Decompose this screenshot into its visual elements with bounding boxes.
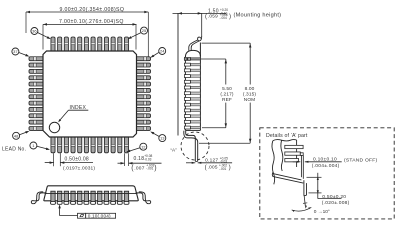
svg-text:5.50: 5.50 — [222, 86, 232, 92]
svg-text:24: 24 — [160, 49, 165, 54]
svg-text:(.0197±.0031): (.0197±.0031) — [63, 165, 95, 171]
svg-text:0.50±0.20: 0.50±0.20 — [322, 194, 346, 200]
svg-text:-.004: -.004 — [220, 16, 227, 20]
svg-text:LEAD No.: LEAD No. — [2, 147, 26, 153]
svg-text:8.00: 8.00 — [245, 86, 255, 92]
svg-text:.005: .005 — [208, 165, 218, 170]
svg-text:9.00±0.20(.354±.008)SQ: 9.00±0.20(.354±.008)SQ — [60, 7, 125, 13]
svg-text:-.001: -.001 — [146, 167, 153, 171]
svg-text:0 →10°: 0 →10° — [314, 209, 330, 215]
svg-text:REF: REF — [222, 97, 232, 103]
svg-text:.007: .007 — [134, 165, 144, 171]
svg-text:): ) — [229, 13, 231, 20]
svg-text:(.217): (.217) — [220, 92, 233, 98]
svg-text:0.50±0.08: 0.50±0.08 — [65, 157, 89, 163]
svg-text:(.020±.008): (.020±.008) — [322, 200, 350, 206]
svg-text:“A”: “A” — [171, 148, 178, 153]
svg-text:(Mounting height): (Mounting height) — [234, 12, 282, 18]
svg-text:.059: .059 — [208, 14, 218, 19]
svg-text:37: 37 — [13, 49, 18, 54]
svg-text:13: 13 — [160, 136, 165, 141]
svg-text:36: 36 — [32, 29, 37, 34]
svg-text:0.127: 0.127 — [205, 157, 218, 163]
svg-text:Details of ‘A’ part: Details of ‘A’ part — [266, 133, 308, 139]
svg-text:(.004±.004): (.004±.004) — [312, 163, 340, 169]
svg-text:25: 25 — [142, 28, 147, 33]
svg-text:(STAND OFF): (STAND OFF) — [344, 158, 377, 164]
svg-text:12: 12 — [141, 144, 146, 149]
svg-text:NOM: NOM — [244, 97, 256, 103]
svg-text:0.10(.004): 0.10(.004) — [88, 213, 111, 218]
svg-text:-.001: -.001 — [219, 167, 226, 171]
svg-text:0.18: 0.18 — [134, 156, 145, 162]
svg-text:): ) — [229, 164, 231, 171]
svg-text:): ) — [154, 165, 156, 172]
svg-text:7.00±0.10(.276±.004)SQ: 7.00±0.10(.276±.004)SQ — [59, 19, 124, 25]
svg-text:(.315): (.315) — [243, 92, 256, 98]
svg-text:-0.03: -0.03 — [144, 157, 151, 161]
svg-text:48: 48 — [14, 133, 19, 138]
svg-text:0.10±0.10: 0.10±0.10 — [313, 156, 337, 162]
